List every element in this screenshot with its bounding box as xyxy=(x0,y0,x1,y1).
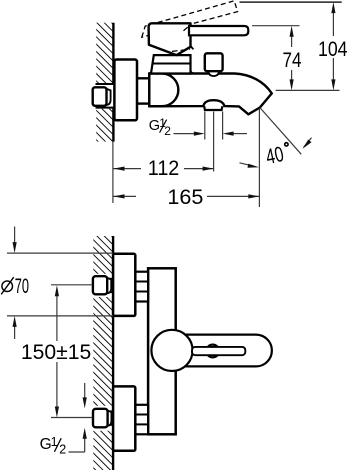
hex nut1 side face xyxy=(107,278,111,294)
eccentric shank xyxy=(96,83,114,85)
dashed lever (raised position) xyxy=(142,1,238,37)
lever screw circle xyxy=(206,345,219,358)
74 ext top xyxy=(252,25,300,27)
ext lines from aerator xyxy=(204,112,206,140)
nut2 clearing xyxy=(92,406,114,431)
spout + body silhouette xyxy=(149,74,271,115)
diverter knob xyxy=(205,53,223,71)
body housing (D shape) xyxy=(149,74,178,107)
40 deg diagonal xyxy=(260,108,301,155)
165 dim line xyxy=(114,195,137,197)
dia70 arrows shafts xyxy=(14,227,16,244)
74 dim line xyxy=(291,32,293,47)
nut1 shank xyxy=(105,278,113,280)
eccentric shank clearing xyxy=(94,83,114,109)
extension line wall (112/165 dims) xyxy=(112,142,114,203)
handle hub circle xyxy=(151,330,192,371)
150 ref lines xyxy=(51,284,92,286)
value G1/2 (bottom) xyxy=(40,435,67,457)
wall flange 2 (front) xyxy=(113,386,135,450)
svg-text:112: 112 xyxy=(148,156,180,180)
svg-text:74: 74 xyxy=(283,48,302,72)
value dia70 xyxy=(1,277,14,294)
lever slot xyxy=(192,347,245,355)
wall face line xyxy=(112,236,114,470)
nut1 clearing xyxy=(92,274,114,297)
main body (front) xyxy=(148,268,176,434)
neck2 (front) xyxy=(135,405,148,435)
arrows xyxy=(194,132,205,136)
tick leader at 112 line toward tip ext xyxy=(240,163,252,166)
wall hatching top view xyxy=(96,23,113,142)
hex nut1 xyxy=(93,276,107,294)
wall face line xyxy=(112,23,114,142)
wall flange 1 (front) xyxy=(113,254,135,316)
wall hatching bottom view xyxy=(93,236,113,470)
104 dim line xyxy=(332,8,334,36)
hex nut2 xyxy=(93,409,108,428)
hex nut (top view) xyxy=(93,87,107,106)
bottom ext (74/104) xyxy=(276,89,340,91)
dashed arc segment near cartridge xyxy=(172,25,190,51)
nut2 shank xyxy=(105,410,113,412)
ext line spout tip vertical xyxy=(258,109,260,208)
value G1/2 (top view) xyxy=(149,116,171,138)
lever bar (horizontal position) xyxy=(189,26,248,35)
svg-text:104: 104 xyxy=(318,37,348,61)
G1/2 arrows shafts xyxy=(84,383,86,398)
G1/2 leader left/right xyxy=(174,133,197,135)
aerator ring under spout xyxy=(204,106,222,110)
value 40deg xyxy=(264,142,286,169)
cartridge / handle base xyxy=(149,23,191,55)
hex nut side face (top view) xyxy=(106,89,111,105)
cartridge body bands xyxy=(151,55,191,73)
104 ext top xyxy=(240,1,342,3)
svg-text:70: 70 xyxy=(15,274,29,298)
hex nut2 side face xyxy=(107,410,111,426)
svg-text:2: 2 xyxy=(59,443,66,457)
svg-text:2: 2 xyxy=(164,124,171,138)
112 dim line xyxy=(114,168,142,170)
150 dim line xyxy=(56,295,58,341)
dia70 ext lines xyxy=(7,252,113,254)
step below lever xyxy=(191,46,194,49)
neck1 (front) xyxy=(135,272,148,302)
svg-text:165: 165 xyxy=(167,185,203,209)
diverter knob collar xyxy=(208,71,219,76)
lever (front) stadium xyxy=(170,335,272,367)
wall flange (top view) xyxy=(114,60,137,121)
neck between flange and body xyxy=(137,77,149,79)
svg-text:150±15: 150±15 xyxy=(21,340,91,364)
